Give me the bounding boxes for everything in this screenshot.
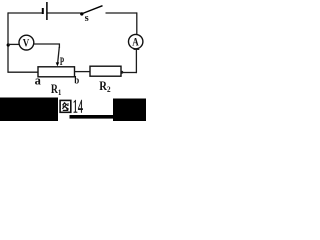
battery B1 short plate (negative) — [42, 8, 44, 14]
switch S hinge dot — [80, 12, 83, 15]
caption black mass left — [0, 98, 58, 122]
battery B1 long plate (positive) — [46, 2, 48, 20]
voltmeter junction dot on left wire — [7, 43, 10, 46]
wire switch to top-right corner — [106, 12, 138, 14]
wire left vertical — [7, 12, 9, 72]
wire top-left horizontal — [8, 12, 42, 14]
wire voltmeter left lead — [8, 43, 19, 45]
wire voltmeter right lead to slider corner — [34, 44, 60, 48]
svg-text:a: a — [35, 74, 42, 88]
wire bottom-left horizontal — [8, 71, 39, 73]
svg-text:s: s — [85, 13, 89, 24]
junction blob at R2 right terminal — [120, 71, 123, 74]
caption figure label 图 (drawn glyph) — [60, 100, 71, 112]
voltmeter V1 circle — [19, 35, 34, 50]
ammeter A1 circle — [129, 34, 143, 48]
wire battery to switch — [48, 12, 81, 14]
ammeter bottom terminal tick — [134, 48, 140, 50]
slider arrow head P — [56, 62, 60, 66]
svg-text:A: A — [132, 36, 139, 48]
caption black bar under 14 — [70, 115, 114, 119]
resistor R2 box — [90, 66, 121, 76]
wire bottom-right horizontal — [121, 72, 137, 74]
svg-text:V: V — [23, 37, 30, 49]
caption black mass right — [113, 99, 146, 122]
wire right vertical lower — [135, 50, 137, 74]
svg-text:b: b — [74, 75, 79, 87]
wire slider vertical shaft — [58, 47, 60, 63]
svg-text:14: 14 — [73, 97, 84, 117]
wire right vertical upper — [136, 12, 138, 34]
wire R1 to R2 — [75, 71, 91, 73]
switch S lever (open) — [83, 6, 103, 14]
rheostat R1 box — [38, 67, 75, 77]
